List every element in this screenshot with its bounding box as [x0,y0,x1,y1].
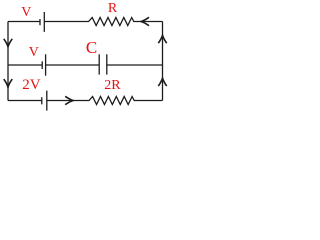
svg-text:V: V [29,45,39,60]
svg-text:R: R [108,1,118,16]
svg-text:2R: 2R [104,78,121,93]
svg-text:2V: 2V [22,77,41,93]
svg-text:C: C [86,38,97,57]
svg-text:V: V [21,5,31,20]
